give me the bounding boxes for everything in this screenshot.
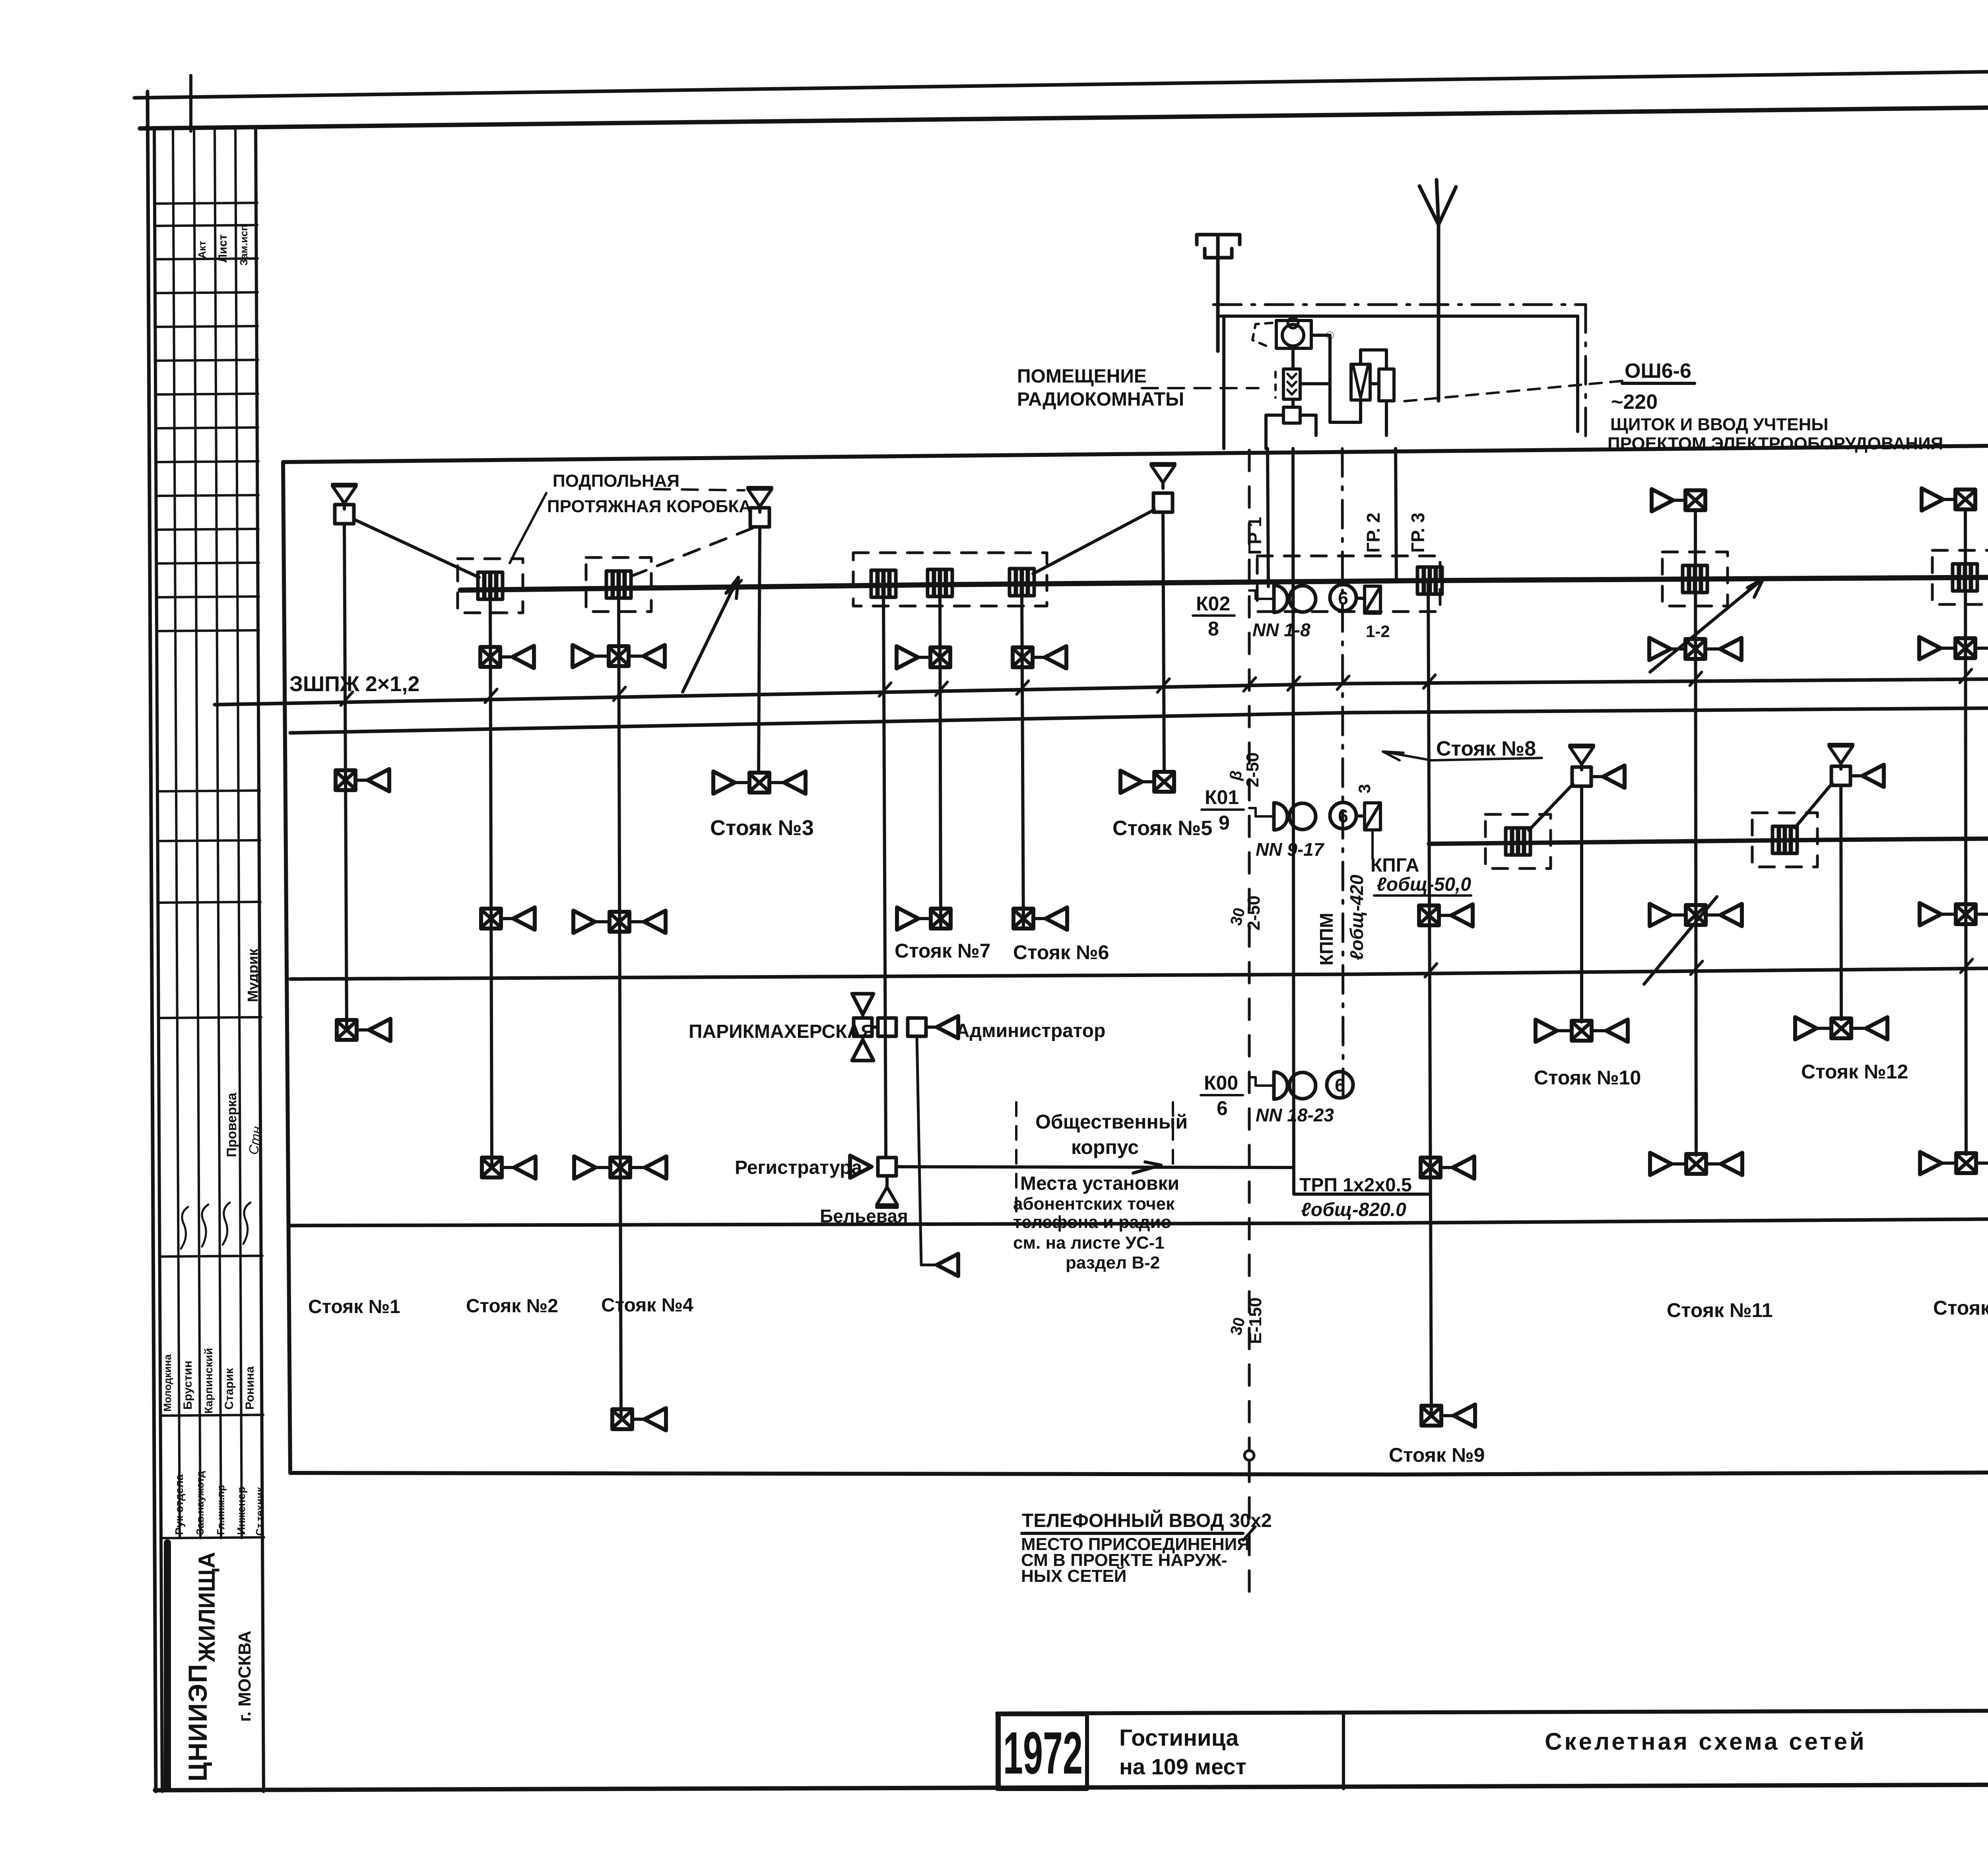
radio room inner left vertical [1222, 316, 1225, 449]
svg-text:НЫХ СЕТЕЙ: НЫХ СЕТЕЙ [1021, 1566, 1126, 1586]
wire registry to phone riser [896, 1167, 1293, 1168]
wire vertical riser 6 [1022, 595, 1023, 928]
svg-text:1972: 1972 [1003, 1719, 1083, 1786]
TV antenna [1197, 235, 1240, 351]
dashes right of label [654, 489, 744, 490]
svg-text:Стояк №11: Стояк №11 [1667, 1299, 1773, 1321]
wire vertical from pull box a to registry [883, 597, 886, 1157]
svg-text:Инженер: Инженер [235, 1486, 247, 1535]
svg-text:Места установки: Места установки [1020, 1173, 1179, 1194]
floor divider 1st floor [290, 1215, 1988, 1226]
svg-text:ПАРИКМАХЕРСКАЯ: ПАРИКМАХЕРСКАЯ [689, 1021, 875, 1042]
tick marks on floor divider 3 [341, 692, 353, 705]
main antenna [1419, 180, 1456, 401]
1972 box [999, 1714, 1087, 1789]
dashed square riser 2 [458, 559, 523, 613]
ticks on divider 2 [1691, 961, 1703, 975]
trunk line 2nd floor east wing [1429, 835, 1988, 844]
diagonal arrow on east trunk [1650, 579, 1763, 672]
terminal box with chevrons [1283, 369, 1300, 399]
svg-text:Ст.техник: Ст.техник [254, 1487, 266, 1536]
svg-text:Скелетная схема сетей: Скелетная схема сетей [1545, 1728, 1867, 1755]
inner top frame line [140, 100, 1988, 128]
riser 3 top box [750, 508, 769, 527]
KPL dashed riser [1248, 450, 1251, 1450]
riser 13 [1922, 488, 1975, 511]
registry socket: triangle [850, 1156, 872, 1178]
svg-text:РАДИОКОМНАТЫ: РАДИОКОМНАТЫ [1017, 389, 1184, 410]
dashed square riser 4 [586, 558, 651, 612]
hairdresser vertical bowtie [852, 994, 874, 1061]
svg-text:ПРОЕКТОМ ЭЛЕКТРООБОРУДОВАНИЯ: ПРОЕКТОМ ЭЛЕКТРООБОРУДОВАНИЯ [1607, 434, 1943, 453]
tick at top-left corner [189, 76, 192, 131]
amplifier group 3 [1274, 1072, 1316, 1099]
riser 11 [1652, 489, 1705, 511]
wire from admin box down [917, 1036, 935, 1265]
svg-text:ℓобщ-820.0: ℓобщ-820.0 [1301, 1199, 1406, 1220]
wire top bus inside room [1291, 316, 1295, 321]
wire diagonal riser3 to pull box [628, 528, 753, 577]
svg-text:3: 3 [1355, 784, 1374, 793]
svg-text:Стояк №6: Стояк №6 [1013, 941, 1109, 964]
svg-text:Брустин: Брустин [181, 1361, 194, 1410]
radio socket riser2 2nd floor [481, 907, 535, 930]
riser 5 top antenna outlet [1151, 464, 1175, 488]
socket riser4 1st floor [574, 1156, 666, 1179]
left outer border [148, 91, 156, 1791]
svg-text:телефона и радио: телефона и радио [1013, 1212, 1171, 1232]
socket riser10 [1536, 1020, 1628, 1042]
svg-text:К00: К00 [1204, 1072, 1238, 1094]
svg-text:на 109 мест: на 109 мест [1119, 1754, 1246, 1779]
svg-text:КПГА: КПГА [1371, 855, 1419, 876]
diagonal arrow on trunk2 [1644, 897, 1717, 984]
bracket from dashed riser to group1 [1249, 591, 1272, 599]
linen room bowtie below registry [885, 1176, 889, 1187]
dashed brackets around public label [1015, 1102, 1017, 1211]
svg-text:8: 8 [1208, 618, 1219, 640]
svg-text:~220: ~220 [1611, 390, 1658, 414]
wire riser 2 vertical [490, 599, 492, 1168]
hotel name box [1342, 1713, 1345, 1789]
svg-text:Рук отдела: Рук отдела [173, 1474, 185, 1535]
socket riser5 bottom [1120, 771, 1174, 793]
svg-text:Гостиница: Гостиница [1119, 1725, 1239, 1751]
svg-text:Лист: Лист [216, 234, 229, 262]
svg-text:корпус: корпус [1071, 1136, 1139, 1158]
svg-text:Акт: Акт [196, 241, 208, 258]
svg-text:Стояк №8: Стояк №8 [1436, 737, 1536, 760]
small circle at phone entry [1244, 1451, 1254, 1460]
svg-text:КППМ: КППМ [1316, 913, 1337, 965]
riser 10 top outlet [1570, 745, 1594, 770]
riser 1 top box [335, 505, 354, 524]
svg-text:Стояк №10: Стояк №10 [1534, 1067, 1641, 1089]
socket stand9 basement [1421, 1405, 1475, 1427]
riser 8-9 vertical [1428, 581, 1431, 1416]
tick on phone dashed line [1243, 1527, 1255, 1540]
junction square [1283, 407, 1300, 423]
svg-text:абонентских точек: абонентских точек [1013, 1194, 1175, 1214]
feeder group line 3 vertical [1396, 449, 1396, 581]
svg-text:ПОДПОЛЬНАЯ: ПОДПОЛЬНАЯ [553, 471, 679, 491]
radio socket riser1 2nd floor [336, 769, 389, 791]
floor divider 2nd floor [290, 963, 1988, 979]
svg-text:Стояк №5: Стояк №5 [1112, 817, 1212, 840]
wires of V-box [1359, 350, 1362, 364]
svg-text:Бельевая: Бельевая [820, 1206, 908, 1226]
feeder group line 2 dash-dot vertical [1342, 449, 1343, 1098]
svg-text:ℓобщ-50,0: ℓобщ-50,0 [1376, 874, 1471, 895]
svg-text:Администратор: Администратор [956, 1020, 1105, 1041]
svg-text:ЦНИИЭП: ЦНИИЭП [183, 1663, 212, 1781]
svg-text:ЖИЛИЩА: ЖИЛИЩА [194, 1552, 220, 1663]
bracket group2 right [1371, 830, 1374, 859]
radio room dash-dot boundary top [1213, 303, 1586, 306]
svg-text:1-2: 1-2 [1366, 622, 1390, 641]
wire chain links [872, 1026, 878, 1029]
svg-text:ГР. 3: ГР. 3 [1408, 513, 1428, 553]
svg-text:9: 9 [1219, 812, 1230, 834]
svg-text:Стояк №4: Стояк №4 [601, 1295, 693, 1316]
svg-text:Старик: Старик [223, 1368, 236, 1410]
svg-text:Карпинский: Карпинский [202, 1348, 215, 1414]
pull box on trunk at riser 2 [478, 572, 503, 599]
svg-text:Стояк №1: Стояк №1 [308, 1296, 400, 1317]
socket riser6 3rd floor [1013, 646, 1066, 668]
svg-text:Гл.инж.пр: Гл.инж.пр [215, 1485, 227, 1535]
svg-text:Зав.наужотд: Зав.наужотд [194, 1471, 206, 1535]
svg-text:Общественный: Общественный [1035, 1111, 1188, 1133]
svg-text:К02: К02 [1196, 593, 1230, 615]
arrow mark on registry wire [1133, 1165, 1161, 1173]
amplifier group 1 [1274, 585, 1316, 612]
riser 12 top outlet [1829, 744, 1853, 769]
wire diagonal riser5 to pull box [1033, 510, 1154, 574]
svg-text:Регистратура: Регистратура [735, 1157, 862, 1178]
ticks on trunk1 [730, 580, 742, 594]
institute big cell [164, 1543, 171, 1787]
wire terminal right [1300, 382, 1330, 385]
socket riser4 basement [612, 1408, 666, 1430]
pull box on trunk2 for riser 10 [1506, 828, 1530, 855]
wire riser 1 vertical [344, 524, 347, 1030]
riser 3 top antenna outlet [748, 488, 772, 512]
amplifier unit circle [1282, 324, 1304, 346]
socket stand8 1st floor [1421, 1156, 1474, 1179]
svg-text:6: 6 [1217, 1097, 1228, 1119]
socket riser3 2nd band [713, 771, 806, 794]
svg-text:NN 18-23: NN 18-23 [1256, 1105, 1334, 1125]
bottom border [155, 1783, 1988, 1790]
svg-text:ПРОТЯЖНАЯ КОРОБКА: ПРОТЯЖНАЯ КОРОБКА [547, 497, 751, 516]
wire riser 3 vertical [759, 527, 760, 773]
wire riser 5 vertical [1163, 512, 1164, 772]
trunk line 3rd floor [460, 575, 1988, 590]
wire amp down [1291, 348, 1295, 369]
phone wire to TRP box [1294, 1193, 1431, 1196]
signature squiggles [181, 1207, 188, 1249]
svg-text:Мудрик: Мудрик [245, 948, 261, 1002]
title block outline [997, 1709, 1988, 1713]
radio socket riser2 1st floor [482, 1156, 536, 1179]
top small rows [155, 203, 257, 204]
svg-text:ℓобщ-420: ℓобщ-420 [1346, 874, 1367, 960]
svg-text:Молодкина: Молодкина [161, 1354, 173, 1412]
right narrow box [1379, 369, 1394, 401]
riser 10 vertical [1580, 786, 1583, 1022]
central dashed junction rectangle [1257, 556, 1440, 612]
svg-text:Стояк №12: Стояк №12 [1801, 1061, 1908, 1083]
svg-text:Стояк №3: Стояк №3 [710, 816, 814, 840]
socket riser4 2nd floor [573, 911, 666, 933]
wire riser 4 vertical [619, 598, 621, 1419]
pull box on trunk near group line 3 [1417, 567, 1442, 594]
diagonal arrow on west trunk [683, 577, 738, 692]
dashed leader to room [1142, 387, 1258, 389]
svg-text:Зам.исп: Зам.исп [238, 225, 250, 266]
amplifier unit box [1276, 321, 1311, 348]
svg-text:Е-150: Е-150 [1246, 1298, 1265, 1344]
socket stand8 2nd floor [1419, 904, 1473, 927]
svg-text:ГР 1: ГР 1 [1244, 517, 1265, 555]
svg-text:Ронина: Ронина [243, 1366, 256, 1410]
svg-text:ТЕЛЕФОННЫЙ ВВОД 30х2: ТЕЛЕФОННЫЙ ВВОД 30х2 [1022, 1509, 1272, 1531]
pull box a [871, 570, 896, 597]
socket riser4 3rd floor [573, 645, 665, 667]
svg-text:NN 1-8: NN 1-8 [1252, 620, 1310, 640]
svg-text:Проверка: Проверка [224, 1092, 239, 1157]
socket riser7 2nd floor stand 7 [897, 907, 951, 930]
dashed leader from shield label [1400, 381, 1622, 402]
svg-text:г. МОСКВА: г. МОСКВА [235, 1631, 254, 1722]
radio socket riser2 3rd floor [480, 646, 534, 668]
svg-text:раздел В-2: раздел В-2 [1066, 1253, 1160, 1272]
svg-text:ОШ6-6: ОШ6-6 [1625, 359, 1691, 383]
svg-text:ПОМЕЩЕНИЕ: ПОМЕЩЕНИЕ [1017, 366, 1147, 387]
diagonal pull box to riser 10 [1529, 784, 1573, 830]
wire vertical riser 7 [940, 596, 941, 928]
pull box c [1010, 569, 1034, 596]
phone entry dashed continuation [1248, 1461, 1251, 1595]
registry socket box [878, 1158, 896, 1176]
basement triangle under admin [937, 1254, 958, 1276]
socket riser6 2nd floor stand 6 [1013, 907, 1067, 930]
svg-text:Стояк №2: Стояк №2 [466, 1296, 558, 1317]
wire amp right [1311, 334, 1330, 337]
riser 5 top box [1153, 493, 1173, 512]
svg-text:ТРП 1х2х0.5: ТРП 1х2х0.5 [1299, 1175, 1412, 1196]
svg-text:2-50: 2-50 [1243, 752, 1262, 787]
svg-text:ЗШПЖ 2×1,2: ЗШПЖ 2×1,2 [289, 672, 419, 696]
svg-text:ГР. 2: ГР. 2 [1363, 513, 1384, 553]
svg-text:см. на листе УС-1: см. на листе УС-1 [1013, 1233, 1165, 1253]
amplifier group 2 [1274, 803, 1316, 830]
leader to pull box [510, 493, 546, 563]
radio socket riser1 1st floor [337, 1019, 390, 1041]
radio room inner right vertical [1576, 316, 1579, 431]
outer top border line [134, 63, 1988, 98]
svg-text:Стояк №9: Стояк №9 [1389, 1444, 1485, 1466]
svg-text:Стояк №7: Стояк №7 [895, 940, 990, 962]
hairdresser chain box 2 open [878, 1018, 896, 1036]
hairdresser chain box 3 [908, 1018, 926, 1036]
floor divider 3rd floor (pair) [215, 675, 1988, 705]
trunk phone pair vertical [1293, 449, 1294, 1194]
svg-text:NN 9-17: NN 9-17 [1256, 839, 1325, 860]
radio room boundary right [1584, 305, 1587, 437]
wire diagonal riser1 to pull box [354, 519, 479, 577]
svg-text:Стояк №13: Стояк №13 [1933, 1297, 1988, 1319]
hairdresser chain box 1 [854, 1018, 872, 1036]
wires out of junction square [1300, 414, 1316, 417]
big dashed rectangle pull boxes group [853, 553, 1047, 606]
dashed bracket left of amplifier [1252, 323, 1272, 347]
radio room inner top line [1221, 315, 1578, 318]
svg-text:ЩИТОК И ВВОД УЧТЕНЫ: ЩИТОК И ВВОД УЧТЕНЫ [1610, 415, 1828, 434]
riser stand 1 top antenna outlet [332, 484, 356, 509]
svg-text:К01: К01 [1205, 786, 1239, 808]
V-box component [1351, 364, 1370, 400]
administrator triangle [937, 1016, 958, 1038]
pull box on trunk at riser 4 [606, 571, 631, 598]
socket riser7 3rd floor [897, 646, 950, 668]
pull box b [928, 569, 952, 596]
feeder group line 1 vertical [1268, 449, 1268, 587]
dashes left of terminal [1274, 372, 1277, 398]
